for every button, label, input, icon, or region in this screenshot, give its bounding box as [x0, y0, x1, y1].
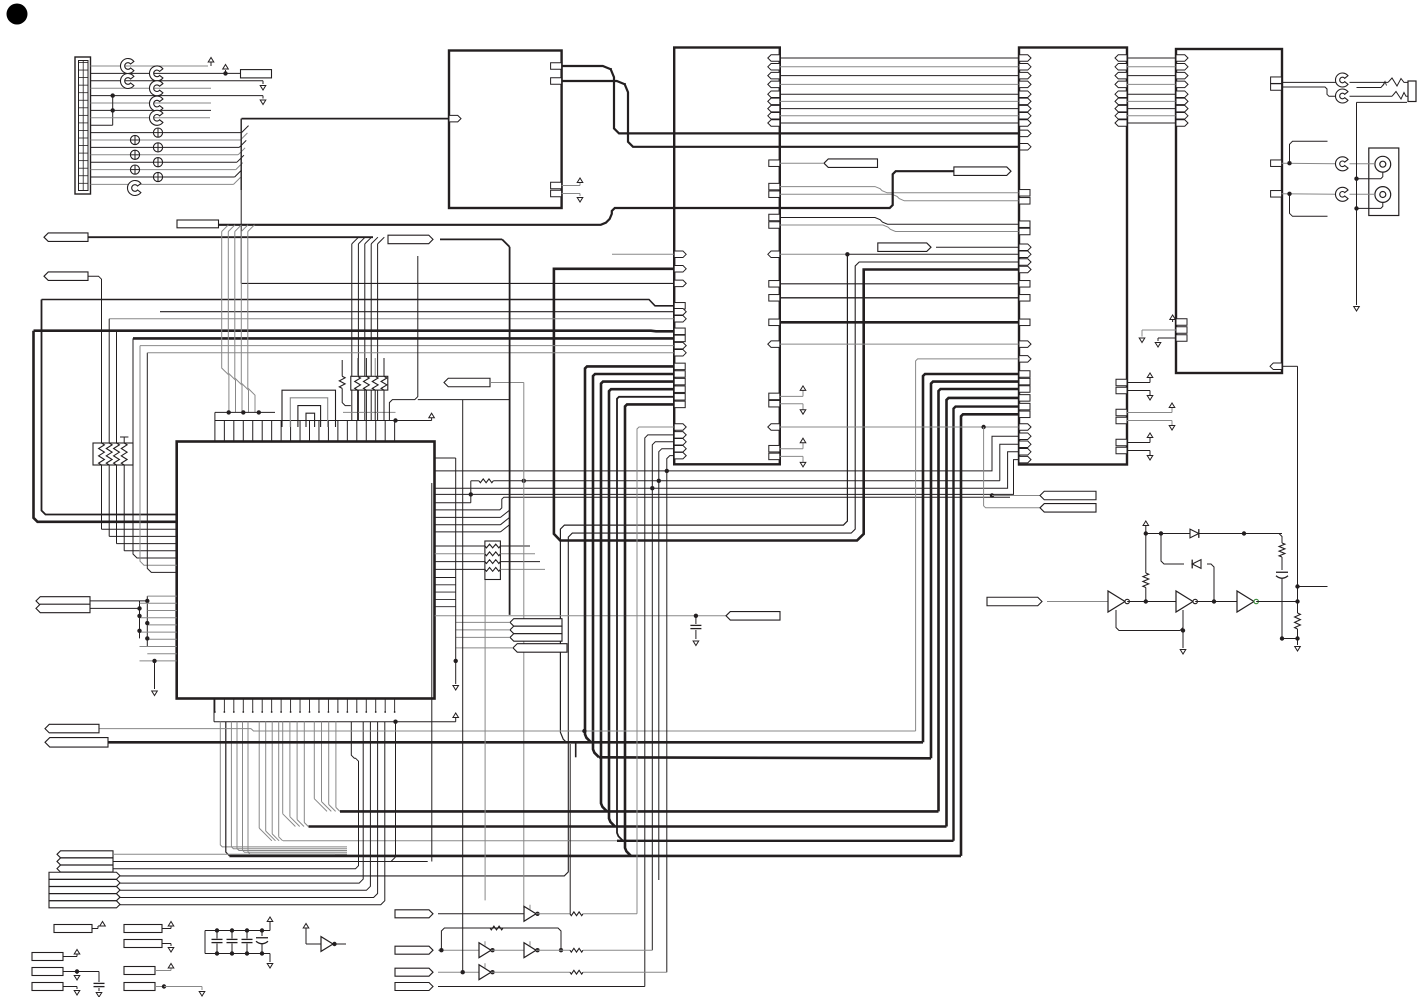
wire B268 to C269 loop	[554, 266, 1031, 541]
wire CN1 row1	[91, 65, 209, 67]
wire B-C data0	[768, 55, 1031, 62]
wire CPUr 470.9 path	[435, 433, 1031, 471]
wire CN1 row12	[91, 146, 240, 148]
wire diode2 path	[1161, 534, 1184, 565]
net label CL1	[36, 597, 90, 606]
net label L2	[44, 272, 88, 281]
IC A right pin 2	[551, 78, 562, 85]
buffer BG1	[303, 924, 346, 952]
RCA contact wires	[1350, 164, 1375, 195]
wire 546 right	[500, 545, 530, 547]
wire B pin 186 to C 192.8	[769, 183, 1030, 196]
bus entries CN1 to bus	[234, 126, 249, 185]
IC C pin 358.9	[1019, 356, 1031, 363]
wire 395 branch	[391, 722, 396, 862]
bus T1	[219, 171, 954, 225]
net label ML1	[444, 378, 490, 387]
wire corner 389-400	[389, 256, 417, 421]
C right pwr pins 442.5	[1116, 433, 1153, 460]
page marker bullet	[7, 4, 28, 25]
jumper J5	[149, 96, 162, 111]
IC B body	[674, 48, 780, 465]
bus V 33.5	[34, 331, 177, 522]
resistor network RN2	[351, 376, 388, 390]
IC A bottom pin 1	[551, 182, 562, 189]
label box BL2	[124, 922, 174, 933]
wire CN1 row5	[91, 95, 264, 97]
ferrite bead FB3	[130, 165, 139, 174]
wire C-D data2	[1115, 72, 1188, 79]
net labels LBOT x8	[49, 851, 120, 908]
wire out gnd	[1282, 602, 1300, 641]
mega bundle V1	[923, 374, 1019, 742]
resistor R osc1	[1143, 534, 1149, 602]
jumper J1	[120, 59, 133, 74]
CPU bottom pin stubs	[214, 699, 396, 713]
label box BL6	[32, 983, 80, 996]
wire CN1 row7	[91, 109, 212, 111]
IC C pin 381.6	[1019, 378, 1030, 385]
wires CL to dots	[90, 599, 150, 611]
mega bundle V0	[916, 359, 1019, 731]
net label CR4	[513, 644, 567, 653]
gnd fb	[1180, 631, 1186, 655]
wire dot 455 660	[435, 458, 459, 690]
RN2 leads	[358, 358, 384, 421]
wire CN1 row15	[91, 169, 236, 171]
net label MID-R	[954, 167, 1011, 176]
wire L2 down	[88, 276, 102, 443]
ground arrow row5	[260, 96, 266, 105]
stair B left 1	[645, 432, 686, 987]
net label 742	[45, 738, 108, 748]
bus T2 seg1	[88, 236, 373, 238]
wire B-C data6	[768, 105, 1031, 112]
ferrite bead FB1	[130, 135, 139, 144]
label box BL4	[32, 950, 80, 961]
wire CN1 row2	[91, 72, 241, 74]
thick 742 label wire	[108, 741, 923, 744]
wire 553 right	[500, 553, 535, 555]
jumper J7	[127, 181, 140, 196]
wire CN1 row16	[91, 176, 235, 178]
label box row2	[241, 70, 272, 78]
wire G2-G3	[1195, 599, 1237, 603]
wire riser tap	[990, 493, 1040, 497]
ground arrow row3	[260, 81, 266, 90]
bus H 330.7	[34, 328, 686, 335]
stair B left 2	[652, 439, 686, 951]
wire MID-R2 to C	[936, 244, 1031, 251]
wire V 109 resnet	[109, 319, 177, 537]
CPUr diag jogs	[435, 510, 510, 532]
IC A bottom pin 2	[551, 190, 562, 197]
nested wire U4	[306, 413, 315, 427]
CPU top rail2	[215, 410, 275, 414]
wires D to phone jack	[1271, 77, 1336, 96]
CPU top pin rail	[215, 421, 396, 442]
wire CN1 row10	[91, 132, 242, 134]
wire 561 right	[500, 561, 540, 563]
label box BL7	[124, 964, 174, 975]
CPU body	[177, 442, 435, 699]
ferrite bead FB7	[153, 172, 162, 181]
wire V 133	[133, 338, 177, 558]
wire row 861	[113, 861, 432, 863]
IC C pin 389	[1019, 386, 1030, 393]
wire D pin163	[1271, 160, 1336, 167]
wire B pin to TOP1	[769, 160, 824, 167]
bus B pin 396.8 loop	[617, 394, 685, 841]
ferrite bead FB2	[130, 150, 139, 159]
net label BM3	[395, 968, 433, 976]
wire row1	[438, 913, 524, 915]
wire B-C data7	[768, 113, 1031, 120]
jumper J4	[149, 81, 162, 96]
net label BM2	[395, 946, 433, 954]
bundle B jog line	[113, 722, 359, 869]
junction jog rows 4-7	[111, 93, 115, 125]
wire chev1 to C 224	[769, 214, 1030, 227]
junction dots mid	[522, 469, 669, 491]
jumper J3	[149, 66, 162, 81]
phone jack contact C1	[1335, 73, 1348, 87]
resistor R single	[339, 360, 351, 406]
wire C-D data0	[1115, 55, 1188, 62]
stair B left 4	[667, 452, 686, 972]
phone jack contact C2	[1335, 89, 1348, 103]
RC branch	[1244, 534, 1282, 544]
wire C262 loop	[113, 259, 1031, 876]
resistor network RN1	[93, 443, 133, 465]
wire row2b	[536, 948, 652, 952]
wire osc top	[1146, 531, 1282, 535]
nested wire U3	[298, 406, 321, 427]
jumper J2	[120, 74, 133, 89]
wires to CR labels	[456, 622, 513, 648]
bus H 338.4	[133, 335, 685, 342]
nested wire U2	[290, 398, 327, 427]
net label CL2	[36, 604, 90, 613]
wire row2	[438, 948, 479, 952]
wire row1b	[536, 912, 637, 916]
thick 840 right	[617, 840, 954, 842]
wire V 124 cap	[120, 437, 177, 551]
net label L1	[44, 233, 88, 242]
net label TOP1	[824, 159, 878, 168]
net label MID-R2	[878, 243, 931, 252]
wire B pin 194 to C 201	[769, 191, 1030, 204]
bus T2 seg2	[440, 239, 510, 247]
ferrite bead FB4	[153, 128, 162, 137]
bus H 299.5	[42, 300, 686, 310]
wire CPUr 502 path	[435, 497, 1010, 510]
C right pwr pins 382.5	[1116, 373, 1153, 400]
staircase to 826	[283, 722, 309, 827]
jumper J6	[149, 110, 162, 125]
vert 509 thick	[509, 247, 511, 615]
resistor R osc2	[1279, 543, 1285, 570]
buffer row2b	[524, 941, 540, 957]
RCA contact C1	[1335, 157, 1348, 171]
net label CR1	[510, 619, 562, 627]
wire B-C data1	[768, 64, 1031, 71]
IC C pin 397.9	[1019, 395, 1030, 402]
phone jack body	[1408, 81, 1416, 102]
wire B-C data8	[768, 120, 1031, 127]
B right pwr pins 396.4	[769, 386, 806, 414]
bus H 311.7	[160, 308, 686, 315]
resistor network RN3	[485, 541, 501, 580]
nested wire U1	[282, 390, 336, 427]
bus H 352.8	[147, 350, 686, 357]
wire rail VCC	[393, 413, 434, 422]
wire B-C data2	[768, 72, 1031, 79]
bus riser CN1	[240, 119, 242, 190]
thick 826	[309, 825, 947, 828]
wire C-D data7	[1115, 113, 1188, 120]
wire CPUr 494 path	[435, 456, 1031, 494]
vcc osc	[1143, 521, 1149, 536]
wire CN1 row14	[91, 161, 237, 163]
IC C pin 374	[1019, 371, 1030, 378]
IC C pin hex 147	[1019, 144, 1031, 151]
mega bundle V6	[961, 414, 1019, 856]
bus B pin 404.4 loop	[625, 401, 685, 856]
IC C pin 414.3	[1019, 411, 1030, 418]
buffer row1	[524, 905, 540, 921]
wire chev2 to C 231	[769, 222, 1030, 235]
rail2 drops	[214, 412, 216, 420]
wire C-D data8	[1115, 120, 1188, 127]
inverter G3	[1237, 591, 1258, 612]
wire B-C 283.8	[769, 281, 1030, 288]
bus riser 240.8	[240, 190, 242, 283]
IC C pin hex 133	[1019, 130, 1031, 137]
bundle B CPU to labels	[113, 722, 385, 905]
RCA gnd hooks	[1357, 172, 1383, 208]
IC A right pin 1	[551, 63, 562, 70]
bundle gray verts	[220, 722, 347, 854]
IC A body	[449, 51, 562, 209]
CPU left pin cluster	[137, 596, 176, 661]
wire C-D data3	[1115, 81, 1188, 88]
wire B-C data5	[768, 98, 1031, 105]
diode D1	[1190, 529, 1199, 538]
CPU bottom rail	[214, 699, 396, 722]
gray 728	[99, 729, 916, 734]
wire G3 out	[1256, 599, 1300, 603]
net label 728	[45, 724, 99, 733]
buffer row2a	[479, 941, 495, 957]
wire B-C 297.8	[769, 295, 1030, 302]
wire A pin to VCC	[562, 178, 583, 186]
wire CN1 row9	[91, 124, 113, 126]
wire CN1 row3	[91, 80, 264, 82]
staircase to 811	[314, 722, 340, 812]
gray rail 412	[343, 411, 396, 413]
wire res 480.8 path	[435, 441, 1031, 503]
net label CR2	[510, 626, 562, 634]
bus entries T1 to CPU	[222, 225, 255, 232]
gray verticals T1-CPU	[222, 232, 255, 413]
B right pwr pins 448.7	[769, 438, 806, 467]
wire B-C data4	[768, 91, 1031, 98]
ferrite bead FB6	[153, 158, 162, 167]
phone jack sleeve bar	[1357, 87, 1382, 89]
IC C body	[1019, 48, 1127, 465]
RCA contact C2	[1335, 187, 1348, 201]
net label R237	[388, 235, 433, 244]
label box BL3	[124, 940, 174, 953]
RCA box	[1369, 148, 1399, 216]
wire D2 to out	[1207, 564, 1214, 602]
RN3 left leads	[435, 546, 485, 569]
vert 462	[462, 400, 464, 973]
net label CR3	[510, 634, 562, 642]
net label CM1	[726, 612, 780, 621]
capacitor bank C10-C13	[205, 917, 273, 968]
bus A pin2 to C pin	[562, 81, 1019, 147]
wire CN1 row8	[91, 117, 211, 119]
wire CN1 row6	[91, 102, 212, 104]
wire 399 right	[418, 399, 510, 401]
wire V 140	[140, 346, 177, 566]
net label BM1	[395, 910, 433, 918]
vert 431	[431, 483, 433, 862]
vert 570 down	[569, 744, 571, 914]
wire D366	[1270, 363, 1298, 601]
label box BL5	[32, 968, 94, 981]
wire cap 615.8	[435, 614, 726, 618]
thin 840 left	[283, 840, 617, 842]
branch 847 down	[560, 254, 847, 742]
buffer row3	[479, 963, 495, 979]
wire B-C 344.1	[768, 341, 1031, 348]
wire ML1 clock	[490, 383, 524, 909]
mega bundle V5	[954, 407, 1020, 841]
bus H 283.4	[241, 280, 686, 287]
wire CN1 row17	[91, 183, 234, 185]
inverter G2	[1176, 591, 1197, 612]
bus T1 label	[177, 220, 219, 228]
wire B-C 322.3	[769, 319, 1030, 326]
cap BL	[94, 972, 105, 998]
RCA jack1	[1375, 156, 1391, 172]
wire vcc 718	[393, 713, 458, 724]
net label 507	[1040, 504, 1096, 513]
wire CN1 row13	[91, 154, 239, 156]
wire A pin to GND	[562, 194, 583, 203]
stair B left 3	[659, 445, 686, 880]
wire row2m	[491, 949, 524, 951]
C right pwr pins 412.5	[1116, 403, 1175, 430]
wire row3	[438, 970, 479, 974]
connector CN1	[75, 57, 91, 194]
wire C-D data4	[1115, 91, 1188, 98]
power arrow row2	[223, 65, 229, 76]
IC D body	[1176, 49, 1282, 373]
net label BM4	[395, 983, 433, 991]
label box BL1	[54, 922, 105, 933]
bus B pin 389.2 loop	[609, 386, 685, 827]
mega bundle V2	[931, 382, 1019, 759]
gnd 1357	[1354, 307, 1360, 312]
wire V 116.5	[117, 331, 177, 544]
ferrite bead FB5	[153, 143, 162, 152]
net label OSC	[987, 597, 1042, 606]
wire CN1 row4	[91, 87, 212, 89]
ground stub CPU left	[152, 659, 158, 696]
bus H 318.8	[109, 316, 686, 323]
wire CPUr 488 path	[435, 449, 1031, 489]
bus A pin1 to C pin	[562, 66, 1019, 133]
bus V 41.5	[42, 300, 177, 515]
bus H 345.6	[140, 342, 686, 349]
diode D2	[1192, 560, 1201, 569]
bus CN1 to IC-A pin	[242, 118, 451, 120]
wire C-D data1	[1115, 64, 1188, 71]
mega bundle V4	[947, 398, 1020, 827]
wire C-D data6	[1115, 105, 1188, 112]
wire B 427 right	[768, 424, 1040, 508]
wire B254 to C254	[768, 251, 1031, 257]
loop row2	[441, 926, 563, 952]
IC C pin 406.6	[1019, 403, 1030, 410]
thick 757-758 seg	[576, 742, 931, 758]
bracket dn	[1290, 194, 1328, 217]
bracket up	[1290, 141, 1328, 163]
phone jack sleeve L	[1357, 101, 1408, 103]
wire OSC chain	[1047, 601, 1108, 603]
phone jack switch arrow	[1381, 82, 1387, 88]
wire B254 left	[612, 251, 686, 257]
power arrow VCC row1	[208, 58, 214, 67]
IC A left pin	[449, 115, 461, 122]
label box BL8	[124, 983, 205, 997]
wire 569 right	[500, 568, 545, 570]
phone jack tip wire	[1350, 78, 1409, 86]
wire row3b	[491, 970, 667, 974]
wire C-D data5	[1115, 98, 1188, 105]
phone jack ring wire	[1350, 92, 1409, 100]
wire B-C data3	[768, 81, 1031, 88]
wire 854 top	[113, 853, 335, 855]
mega bundle V3	[939, 389, 1020, 811]
net label 495	[1040, 491, 1096, 500]
RCA jack2	[1375, 187, 1391, 203]
thick 855	[229, 855, 961, 858]
stair B left gray	[637, 424, 686, 914]
inverter G1	[1108, 591, 1129, 612]
vert 485 gray	[484, 580, 486, 900]
staircase to 840	[259, 722, 283, 841]
gnd osc out	[1295, 639, 1301, 652]
wire row4	[438, 986, 645, 988]
wire fb1	[1116, 610, 1185, 633]
wire G1-G2	[1127, 599, 1176, 603]
wire D pin193	[1271, 191, 1336, 198]
cap osc	[1276, 572, 1288, 640]
sleeve vert 1357	[1354, 102, 1358, 305]
cap C615	[690, 616, 701, 646]
bus B pin 366.4 loop	[585, 363, 685, 742]
bus entries T2 to CPU	[352, 237, 385, 420]
thick 811	[340, 810, 939, 813]
wire 586 stub	[1295, 584, 1327, 588]
wire V 101.5 resnet	[102, 465, 177, 529]
bus B pin 374 loop	[593, 371, 685, 758]
